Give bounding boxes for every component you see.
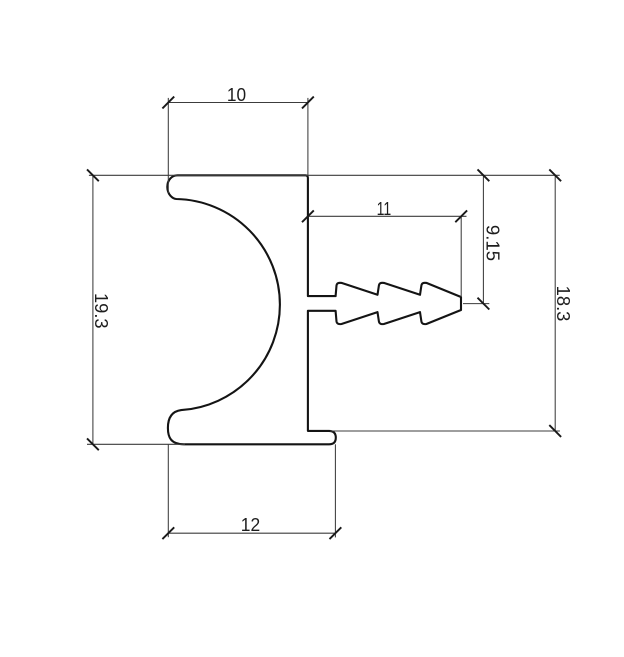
extension line 12-right vertical (334, 444, 336, 537)
dimension line 12 (168, 532, 335, 534)
dimension line 9.15 (482, 175, 484, 303)
extension line 11-right vertical (460, 216, 462, 297)
svg-text:12: 12 (241, 514, 260, 535)
tick 9.15-top (478, 169, 490, 181)
tick 18.3-bottom (549, 425, 561, 437)
dimension line 10 (168, 102, 308, 104)
extension line 12-left vertical (167, 444, 169, 537)
dimension line 18.3 (554, 175, 556, 431)
tick 19.3-bottom (87, 438, 99, 450)
dimension line 19.3 (92, 175, 94, 444)
svg-text:18.3: 18.3 (553, 286, 574, 322)
svg-text:11: 11 (377, 198, 392, 219)
tick 11-left (302, 210, 314, 222)
dimension line 11 (308, 215, 467, 217)
tick 11-right (455, 210, 467, 222)
tick 10-left (162, 97, 174, 109)
extension line top shared (19.3 / 9.15 / 18.3) (89, 174, 560, 176)
svg-text:19.3: 19.3 (91, 293, 112, 329)
tick 19.3-top (87, 169, 99, 181)
tick 12-right (330, 527, 342, 539)
extension line 10-left vertical (167, 98, 169, 193)
tick 10-right (302, 97, 314, 109)
svg-text:10: 10 (227, 84, 246, 105)
svg-text:9.15: 9.15 (482, 225, 503, 261)
extension line step (18.3 bottom) (330, 430, 560, 432)
profile outline (clip extrusion cross-section) (167, 175, 461, 444)
extension line barb tip (9.15 bottom) (463, 303, 489, 305)
tick 18.3-top (549, 169, 561, 181)
tick 9.15-bottom (478, 298, 490, 310)
tick 12-left (162, 527, 174, 539)
extension line 10-right vertical (307, 98, 309, 176)
extension line bottom-left (19.3) (87, 443, 185, 445)
